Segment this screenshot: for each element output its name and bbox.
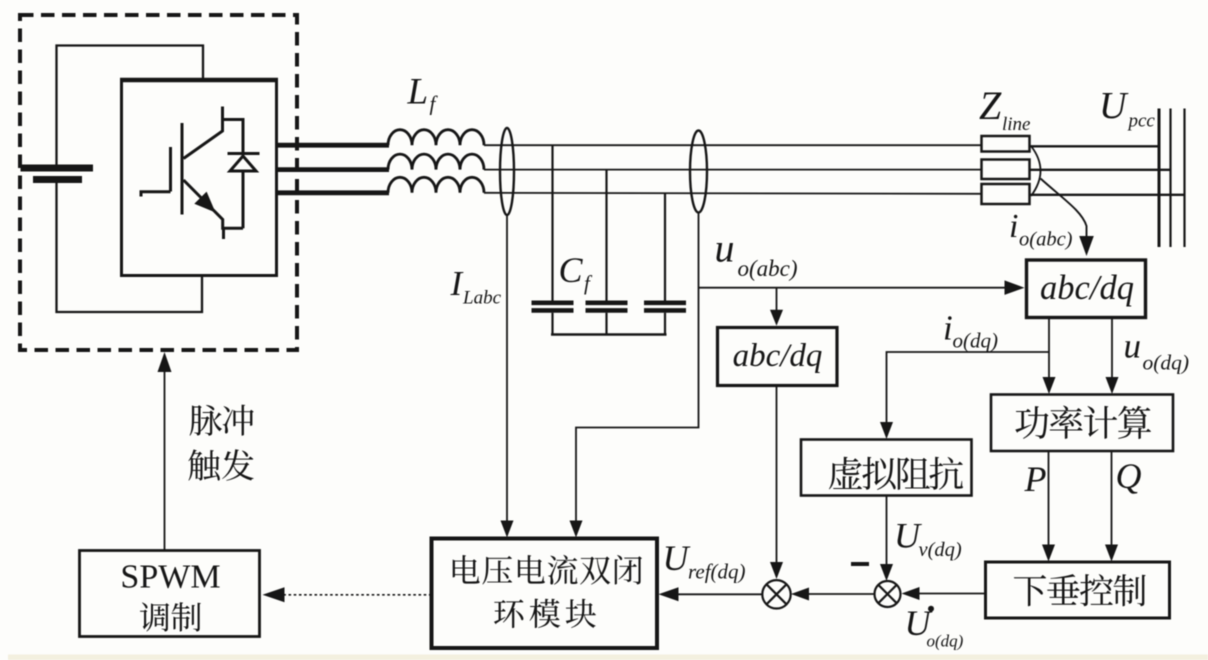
sensor ellipse u_o(abc) xyxy=(690,131,707,213)
label Z_line xyxy=(979,83,1031,135)
wire summer 1 to module xyxy=(663,593,763,595)
dashed enclosure box xyxy=(20,15,297,350)
battery plate long xyxy=(21,165,94,172)
arrow U_ref into module xyxy=(659,587,679,601)
svg-text:u: u xyxy=(1124,327,1142,366)
svg-text:o(abc): o(abc) xyxy=(738,256,798,281)
arrow into voltage-current module (u_o) xyxy=(570,521,583,538)
block SPWM xyxy=(80,551,260,637)
arrow into abc/dq U1 xyxy=(1005,280,1025,295)
wire Q xyxy=(1111,451,1113,557)
block abc/dq U1 xyxy=(1027,260,1146,318)
wire module to SPWM dotted xyxy=(284,594,432,596)
svg-text:ref(dq): ref(dq) xyxy=(688,560,746,584)
block power calculation xyxy=(991,395,1173,452)
wire i_o(abc) curve to abc/dq xyxy=(1041,179,1087,238)
label U_ref(dq) xyxy=(663,538,746,584)
wire u_o(dq) from U1 xyxy=(1111,318,1113,392)
wire phase A Zline to bus xyxy=(1029,145,1159,147)
wire P xyxy=(1048,451,1050,557)
label I_Labc xyxy=(450,264,502,309)
label module line1 xyxy=(453,555,642,585)
block abc/dq U2 xyxy=(718,328,838,386)
wire phase A thick xyxy=(277,143,389,148)
capacitor Cf phase B xyxy=(586,170,628,335)
arrow into summer 1 xyxy=(770,562,783,579)
label Lf xyxy=(407,72,439,116)
wire phase C to Zline xyxy=(484,193,982,194)
label P xyxy=(1024,459,1047,499)
wire u_o(abc) branch down to abc/dq left xyxy=(776,288,778,318)
label U*_o(dq) xyxy=(905,603,964,651)
wire i_o(dq) from U1 xyxy=(1048,318,1050,392)
wire i_o(dq) branch to virtual impedance xyxy=(887,352,1050,434)
wire phase A to Zline xyxy=(484,144,982,146)
arrow Q into droop xyxy=(1105,545,1118,562)
label pulse xyxy=(190,405,254,436)
label u_o(dq) xyxy=(1124,327,1190,375)
inverter box xyxy=(122,80,277,276)
svg-text:line: line xyxy=(1002,114,1031,135)
svg-text:Q: Q xyxy=(1116,456,1142,496)
svg-text:SPWM: SPWM xyxy=(120,559,220,596)
wire phase B Zline to bus xyxy=(1029,169,1171,171)
wire droop to summer 2 xyxy=(905,593,986,595)
inductor Lf phase A xyxy=(388,130,484,146)
brace arc at Zline output xyxy=(1031,146,1041,196)
label U_v(dq) xyxy=(894,516,962,562)
label virtual impedance xyxy=(829,457,963,490)
label trigger xyxy=(188,449,253,481)
wire phase C thick xyxy=(277,190,389,195)
block droop control xyxy=(986,562,1170,618)
summer node 1 xyxy=(762,580,790,608)
minus sign at summer 2 xyxy=(851,562,869,566)
svg-text:U: U xyxy=(663,538,691,578)
svg-text:v(dq): v(dq) xyxy=(919,539,962,561)
arrow i_o(abc) into abc/dq U1 xyxy=(1079,236,1094,256)
svg-text:o(abc): o(abc) xyxy=(1019,229,1073,251)
transistor IGBT xyxy=(141,107,243,240)
inductor Lf phase C xyxy=(388,177,484,193)
wire virtual impedance to summer xyxy=(886,496,888,577)
label SPWM modulation xyxy=(140,602,201,631)
inductor Lf phase B xyxy=(388,154,484,170)
bus bar 2 U_pcc xyxy=(1169,109,1171,248)
capacitor Cf phase C xyxy=(644,193,686,335)
arrow into voltage-current module (I_Labc) xyxy=(501,521,514,538)
wire phase B to Zline xyxy=(484,169,982,171)
wire SPWM trigger up xyxy=(164,370,166,551)
arrow into SPWM xyxy=(263,587,285,602)
arrow into summer 1 xyxy=(791,588,809,601)
svg-text:L: L xyxy=(407,72,429,113)
wire phase B thick xyxy=(277,167,389,172)
svg-text:C: C xyxy=(559,250,584,290)
bus bar 1 U_pcc xyxy=(1158,109,1161,248)
svg-text:U: U xyxy=(1099,85,1129,127)
sensor ellipse I_Labc xyxy=(500,128,514,215)
label i_o(dq) xyxy=(943,309,998,353)
label power calculation xyxy=(1015,405,1151,438)
wire battery top to inverter xyxy=(57,46,204,165)
label u_o(abc) xyxy=(715,226,798,282)
wire Cf common bar xyxy=(551,333,667,335)
label droop control xyxy=(1014,574,1146,606)
svg-text:o(dq): o(dq) xyxy=(1143,351,1190,375)
svg-text:u: u xyxy=(715,226,735,271)
svg-text:i: i xyxy=(943,309,953,348)
arrow P into droop xyxy=(1042,545,1055,562)
arrow i into power calc xyxy=(1043,377,1056,394)
battery plate short xyxy=(33,176,82,183)
label U_pcc xyxy=(1099,85,1155,132)
arrow into abc/dq U2 xyxy=(770,310,783,326)
wire u_o(abc) to abc/dq right xyxy=(699,287,1014,289)
wire summer 2 to summer 1 xyxy=(795,593,875,595)
svg-text:P: P xyxy=(1024,459,1047,499)
label Cf xyxy=(559,250,594,295)
wire phase C Zline to bus xyxy=(1029,194,1185,196)
svg-text:pcc: pcc xyxy=(1127,111,1156,132)
bus bar 3 U_pcc xyxy=(1183,109,1185,248)
arrow pulse trigger into enclosure xyxy=(158,352,172,372)
arrow U_v into summer xyxy=(880,564,893,581)
wire u_o(abc) down and to module xyxy=(576,213,699,531)
svg-text:o(dq): o(dq) xyxy=(927,632,964,651)
diode D1 xyxy=(228,154,260,229)
capacitor Cf phase A xyxy=(532,145,574,334)
block voltage current dual closed loop module xyxy=(432,539,658,649)
wire I_Labc measurement down xyxy=(506,215,508,533)
svg-text:i: i xyxy=(1009,208,1018,245)
svg-text:abc/dq: abc/dq xyxy=(733,338,823,374)
label Q xyxy=(1116,456,1142,496)
summer node 2 xyxy=(875,581,901,607)
svg-text:Labc: Labc xyxy=(462,288,502,309)
arrow into summer 2 xyxy=(902,587,920,600)
arrow u into power calc xyxy=(1106,377,1119,394)
arrow into virtual impedance xyxy=(880,422,893,439)
wire abc/dq U2 to summer 1 xyxy=(776,386,778,575)
block virtual impedance xyxy=(801,440,972,496)
svg-text:abc/dq: abc/dq xyxy=(1040,269,1134,307)
impedance Zline boxes xyxy=(982,136,1030,204)
wire battery bottom to inverter xyxy=(57,183,203,312)
svg-text:o(dq): o(dq) xyxy=(953,329,999,353)
svg-text:Z: Z xyxy=(979,83,1002,128)
IGBT emitter arrow xyxy=(194,192,215,213)
asterisk on U_o(dq) xyxy=(928,606,934,612)
label i_o(abc) xyxy=(1009,208,1073,251)
label module line2 xyxy=(494,599,596,628)
